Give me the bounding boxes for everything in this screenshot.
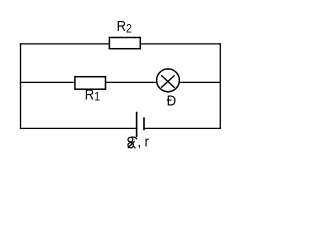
lamp D cross stroke 1 bbox=[161, 75, 175, 88]
resistor R1 bbox=[75, 77, 106, 90]
label EMF script E bbox=[128, 137, 137, 148]
wire right rail bbox=[219, 44, 221, 128]
wire top rail left of R2 bbox=[21, 43, 110, 45]
lamp D cross stroke 2 bbox=[161, 75, 175, 88]
label R2 bbox=[117, 17, 132, 35]
wire left rail bbox=[20, 44, 22, 128]
battery long plate bbox=[136, 113, 138, 137]
lamp D circle bbox=[157, 69, 180, 92]
battery short plate bbox=[143, 118, 145, 129]
svg-text:, r: , r bbox=[138, 134, 150, 150]
wire middle rail left of R1 bbox=[21, 81, 75, 83]
wire top rail right of R2 bbox=[140, 43, 220, 45]
label D (lamp) bbox=[167, 93, 177, 110]
resistor R2 bbox=[109, 38, 140, 49]
wire bottom rail left of battery bbox=[21, 127, 137, 129]
svg-text:Đ: Đ bbox=[167, 93, 177, 110]
label comma and r bbox=[138, 134, 150, 150]
wire bottom rail right of battery bbox=[144, 127, 220, 129]
wire middle rail right of lamp bbox=[180, 81, 221, 83]
label R1 bbox=[85, 86, 100, 104]
wire middle rail between R1 and lamp bbox=[106, 81, 157, 83]
